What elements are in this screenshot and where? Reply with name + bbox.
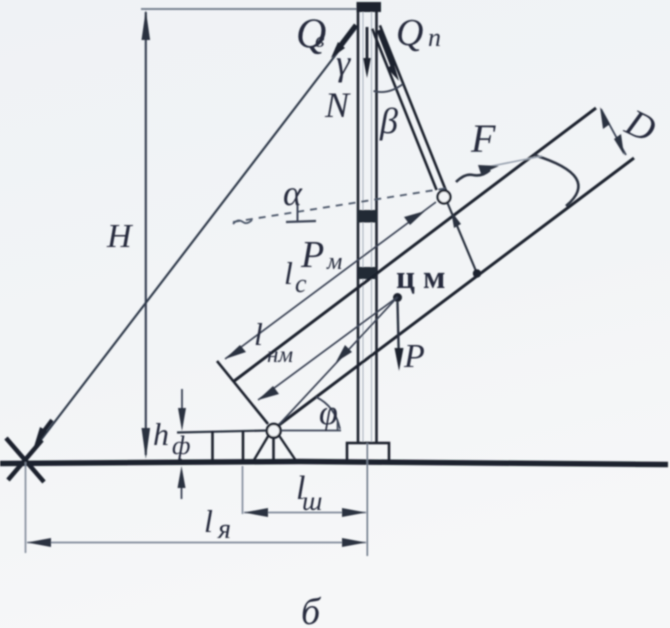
svg-text:цм: цм [396,260,454,296]
force arrow Qv along cable [337,25,356,50]
svg-text:ш: ш [302,486,322,516]
weight arrow P [398,302,399,356]
foundation left vertical [211,431,214,461]
mast right chord [375,10,378,443]
svg-text:в: в [315,27,325,52]
rocket tail edge [217,361,268,424]
force arrow N down the mast [366,27,369,62]
mast left chord [357,10,360,443]
anchor cross [6,438,44,482]
wire: top extension line from H to mast [141,8,361,10]
dimension h_f lower arrow [181,472,183,499]
rocket canister upper line [234,108,597,382]
alpha tick bar [286,221,316,222]
svg-text:P: P [403,338,425,375]
foundation top edge [177,431,267,433]
svg-text:ф: ф [172,431,190,460]
mast inner line left [362,12,364,443]
center of mass dot [393,293,402,302]
mast axis extension below ground [366,443,368,556]
guy cable to anchor [26,27,358,460]
cable arrowhead near anchor [33,427,47,450]
angle arc beta [374,84,404,92]
svg-text:α: α [283,173,303,213]
strut right line [380,25,447,194]
svg-text:я: я [217,514,231,545]
strut (hydraulic jack) left line [372,29,437,190]
svg-text:м: м [326,249,342,275]
dimension D line [601,109,626,155]
squiggle at left end of dashed line [233,220,252,224]
svg-text:P: P [300,234,324,276]
dashed alpha line [233,188,448,222]
svg-text:γ: γ [336,43,351,83]
mast joint collar [358,210,378,223]
svg-text:β: β [379,101,398,141]
joint dot on lower line [473,269,481,277]
rocket canister lower line [279,158,634,425]
svg-text:h: h [153,416,169,452]
phi ref end tick [337,420,339,431]
svg-text:б: б [301,591,322,628]
link from clevis to rocket joint [448,203,477,271]
arrow H top [142,10,151,40]
svg-text:нм: нм [267,342,293,367]
pivot left leg [254,436,269,461]
strut clevis circle [438,191,451,204]
pivot post [272,438,275,462]
dimension line l_c [225,202,436,359]
light line from F to dome [482,156,542,168]
anchor extension line down [25,462,27,553]
alpha tick stem [297,205,299,221]
dimension line l_nm [258,297,398,400]
pivot right leg [279,436,296,461]
line pivot to CM with mid arrow [274,297,398,431]
svg-text:φ: φ [319,395,338,432]
svg-text:l: l [204,503,213,539]
svg-text:F: F [470,116,496,161]
dimension line l_sh [244,512,366,514]
svg-text:Q: Q [396,12,423,54]
svg-text:l: l [254,316,263,352]
force arrow F [456,170,490,182]
extension below foundation for l_sh [242,466,244,514]
phi reference horizontal [281,430,341,432]
mast footing [347,443,389,461]
dimension h_f upper arrow [181,389,183,426]
mast joint collar lower [359,267,377,279]
ground line [0,462,668,465]
force arrow Qp along strut [379,30,393,66]
foundation mid vertical [242,431,245,461]
svg-text:H: H [106,218,134,255]
svg-text:l: l [284,255,293,291]
pivot support circle [267,424,281,438]
angle arc phi [316,397,340,429]
dimension H vertical line [145,12,147,455]
dimension line l_ya [27,542,366,544]
rocket nose dome [534,155,578,206]
mast inner line right [371,12,373,443]
svg-text:N: N [324,85,351,125]
svg-text:п: п [428,23,441,52]
arrow H bottom [142,428,151,459]
mast top cap [357,2,382,12]
